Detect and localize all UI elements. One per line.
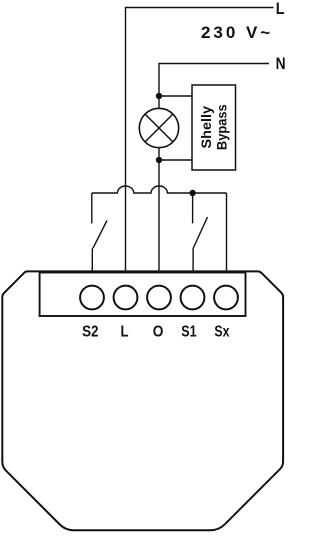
terminal S1	[181, 286, 205, 310]
lamp E1 (circle with X)	[139, 108, 178, 147]
svg-text:O: O	[153, 323, 164, 340]
node: S1 junction on bus	[189, 190, 195, 196]
svg-text:L: L	[276, 0, 285, 18]
switch S1	[193, 193, 208, 271]
wire switch bus (with hops over L and O wires)	[92, 186, 227, 193]
wire Sx terminal	[226, 193, 228, 271]
wire lamp to O terminal	[158, 148, 160, 271]
svg-text:ShellyBypass: ShellyBypass	[198, 104, 230, 150]
svg-text:S2: S2	[82, 323, 98, 340]
node: lamp bottom junction	[156, 157, 162, 163]
terminal L	[114, 286, 138, 310]
terminal Sx	[214, 286, 238, 310]
svg-text:L: L	[121, 323, 129, 340]
terminal S2	[80, 286, 104, 310]
wire bypass top (lamp top node to bypass box)	[159, 95, 192, 97]
terminal O	[147, 286, 171, 310]
svg-text:N: N	[276, 55, 286, 73]
Shelly Bypass box	[192, 85, 236, 170]
node: lamp top junction	[156, 93, 162, 99]
wire N feed (line from label N down to lamp top)	[159, 64, 269, 108]
svg-text:Sx: Sx	[214, 323, 229, 340]
svg-text:S1: S1	[181, 323, 196, 340]
switch S2	[92, 193, 107, 271]
wire bypass bottom (lamp bottom node to bypass box)	[159, 159, 192, 161]
wire L feed (line from label L to drop at x=125.5)	[126, 8, 274, 272]
terminal block	[40, 273, 246, 317]
Shelly device body outline (octagon)	[2, 271, 283, 530]
